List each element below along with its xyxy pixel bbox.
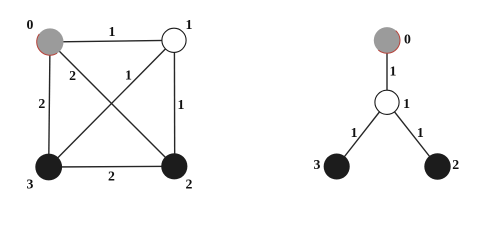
left graph: complete graph K4 bbox=[49, 40, 175, 167]
svg-text:1: 1 bbox=[417, 125, 424, 140]
svg-text:1: 1 bbox=[177, 97, 184, 112]
mst edge 1-3 bbox=[337, 102, 387, 166]
mst node 2 (black) bbox=[424, 153, 450, 179]
svg-text:3: 3 bbox=[26, 176, 33, 191]
svg-text:1: 1 bbox=[108, 24, 115, 39]
svg-text:2: 2 bbox=[185, 176, 192, 191]
mst node 0 red outline arc bbox=[378, 31, 400, 54]
edge 3-2 bbox=[49, 165, 175, 168]
svg-text:1: 1 bbox=[389, 64, 396, 79]
svg-text:3: 3 bbox=[313, 157, 320, 172]
node 1 (white) bbox=[162, 28, 186, 52]
svg-text:2: 2 bbox=[108, 168, 115, 183]
mst node 3 (black) bbox=[324, 153, 350, 179]
edge 0-3 bbox=[49, 42, 50, 167]
edge 1-3 bbox=[49, 40, 174, 167]
mst node 1 (white) bbox=[375, 90, 399, 114]
node 0 (gray) bbox=[37, 28, 64, 55]
right graph: minimum spanning tree bbox=[337, 40, 438, 166]
svg-text:0: 0 bbox=[27, 17, 34, 32]
node 3 (black) bbox=[35, 154, 62, 181]
svg-text:1: 1 bbox=[125, 68, 132, 83]
svg-text:2: 2 bbox=[69, 68, 76, 83]
mst edge 1-2 bbox=[387, 102, 438, 166]
svg-text:0: 0 bbox=[404, 31, 411, 46]
svg-text:1: 1 bbox=[403, 96, 410, 111]
edge 1-2 bbox=[173, 40, 175, 166]
edge 0-2 bbox=[50, 42, 174, 166]
edge 0-1 bbox=[50, 40, 174, 42]
svg-text:2: 2 bbox=[38, 96, 45, 111]
node 0 red outline arc bbox=[37, 34, 57, 55]
svg-text:1: 1 bbox=[186, 17, 193, 32]
svg-text:2: 2 bbox=[452, 157, 459, 172]
svg-text:1: 1 bbox=[351, 125, 358, 140]
node 2 (black) bbox=[161, 153, 187, 179]
mst edge 0-1 bbox=[386, 40, 388, 102]
mst node 0 (gray) bbox=[374, 27, 400, 53]
